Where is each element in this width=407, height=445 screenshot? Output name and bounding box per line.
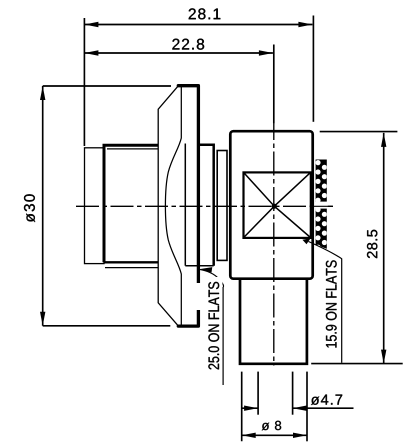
leader 25.0 on flats xyxy=(196,267,223,385)
step C washer xyxy=(217,151,227,261)
hex flange corner face xyxy=(158,86,178,326)
hex flange cap and right face xyxy=(178,86,198,326)
knurl strip (black with punched white dots) xyxy=(313,160,333,255)
coupling cylinder A body xyxy=(104,145,158,267)
bottom extension lines xyxy=(242,372,307,442)
leader 15.9 on flats xyxy=(302,238,341,362)
dim 28.1 xyxy=(84,16,313,147)
dim dia30 xyxy=(43,86,171,326)
vertical centerline xyxy=(273,45,275,366)
front step (thin outline small cylinder at interface) xyxy=(85,148,105,264)
step B (25.0 flats nut) xyxy=(199,145,214,266)
step B bottom line xyxy=(185,265,213,267)
bottom cylinder xyxy=(240,279,307,364)
dim dia8 xyxy=(242,434,307,436)
flat square with diagonals xyxy=(244,172,311,238)
hex flange inner face line xyxy=(184,144,186,266)
dim 28.5 xyxy=(311,132,403,364)
cylinder A thread line top xyxy=(107,148,158,150)
horizontal centerline xyxy=(76,205,333,207)
right-angle body block xyxy=(230,131,312,279)
dim dia4.7 xyxy=(242,407,353,409)
hex flange chamfer arc xyxy=(165,87,181,326)
centerline halo band across knurl xyxy=(315,202,328,209)
cylinder A thread line bottom xyxy=(105,267,158,269)
diagonal TL-BR xyxy=(244,173,310,237)
dim 22.8 xyxy=(84,45,273,124)
